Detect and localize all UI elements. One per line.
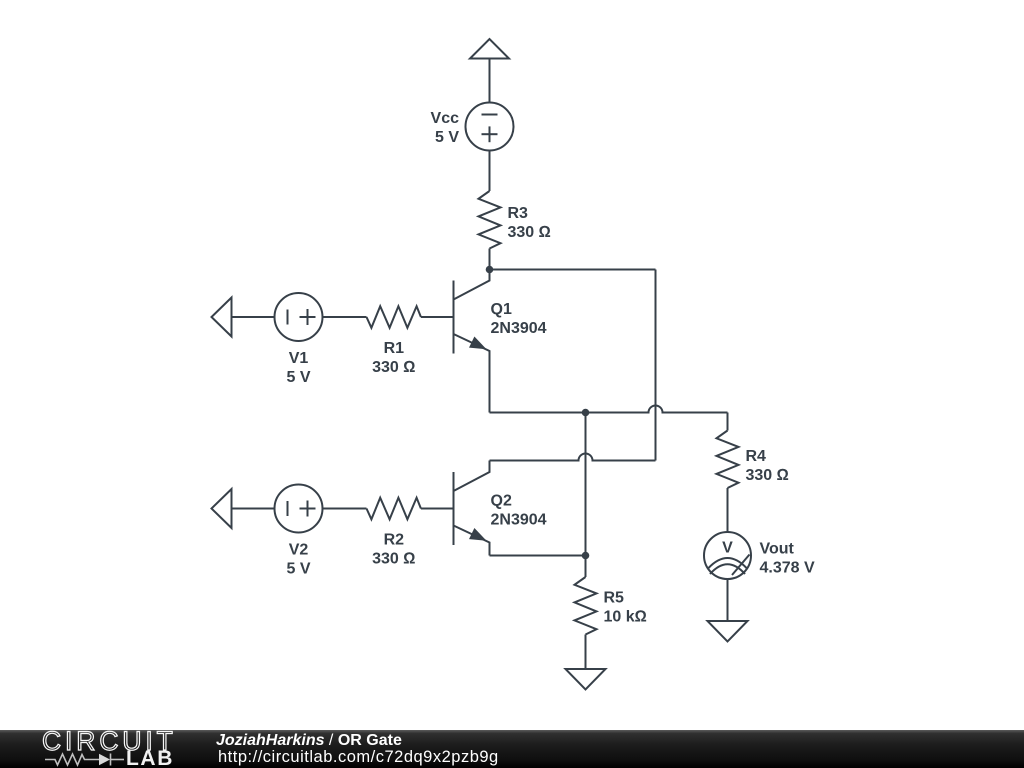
resistor R4	[717, 431, 739, 489]
label Q1 2N3904	[491, 301, 547, 337]
svg-text:Vcc: Vcc	[431, 110, 460, 127]
wire R2 to Q2 base	[421, 508, 453, 510]
svg-text:330 Ω: 330 Ω	[372, 551, 415, 568]
wire arrow to V2	[232, 508, 275, 510]
wire vertical mid	[585, 413, 587, 556]
resistor R1	[367, 306, 421, 328]
wire R1 to Q1 base	[421, 316, 453, 318]
svg-text:330 Ω: 330 Ω	[746, 467, 789, 484]
wire R3 to collector node	[489, 249, 491, 270]
wire rail to R4	[727, 413, 729, 431]
wire arrow to V1	[232, 316, 275, 318]
svg-text:330 Ω: 330 Ω	[372, 359, 415, 376]
svg-text:Vout: Vout	[760, 541, 795, 558]
svg-text:V2: V2	[289, 542, 309, 559]
voltage source V2 5 V	[275, 485, 323, 533]
voltage source V1 5 V	[275, 293, 323, 341]
label Q2 2N3904	[491, 493, 547, 529]
node Q2 emitter	[582, 552, 590, 560]
transistor Q1	[454, 270, 490, 413]
svg-text:2N3904: 2N3904	[491, 320, 547, 337]
wire Q2 collector rail with hop	[490, 454, 656, 461]
label Vcc 5 V	[431, 110, 460, 146]
wire Q2 emitter to node	[490, 555, 586, 557]
transistor Q2	[454, 461, 490, 556]
svg-text:5 V: 5 V	[286, 561, 310, 578]
node emitter rail	[582, 409, 590, 417]
svg-text:V1: V1	[289, 350, 309, 367]
svg-text:LAB: LAB	[126, 747, 174, 768]
wire Vcc flag to source V	[489, 59, 491, 104]
wire collector node to right	[490, 269, 656, 271]
svg-text:R1: R1	[384, 340, 405, 357]
wire V2 to R2	[323, 508, 367, 510]
svg-text:JoziahHarkins / OR Gate: JoziahHarkins / OR Gate	[216, 732, 402, 749]
svg-text:R2: R2	[384, 532, 405, 549]
label R4 330 ohm	[746, 448, 789, 484]
svg-text:R4: R4	[746, 448, 767, 465]
logo resistor-diode squiggle	[45, 754, 124, 766]
wire R4 to voltmeter	[727, 488, 729, 532]
input net arrow V2	[212, 489, 232, 528]
wire right vertical feedback	[655, 270, 657, 461]
svg-text:5 V: 5 V	[435, 129, 459, 146]
label V1 5 V	[286, 350, 310, 386]
svg-text:Q2: Q2	[491, 493, 512, 510]
wire Q1 emitter rail with hop	[490, 406, 728, 413]
resistor R5	[575, 577, 597, 635]
wire source to R3	[489, 151, 491, 192]
resistor R3	[479, 191, 501, 249]
label Vout 4.378 V	[760, 541, 815, 577]
voltage source Vcc 5 V	[466, 103, 514, 151]
svg-text:http://circuitlab.com/c72dq9x2: http://circuitlab.com/c72dq9x2pzb9g	[218, 748, 499, 766]
label R2 330 ohm	[372, 532, 415, 568]
svg-text:V: V	[722, 540, 733, 557]
svg-text:R5: R5	[604, 590, 625, 607]
svg-text:2N3904: 2N3904	[491, 512, 547, 529]
wire V1 to R1	[323, 316, 367, 318]
svg-text:Q1: Q1	[491, 301, 512, 318]
wire R5 to ground	[585, 635, 587, 670]
voltmeter Vout	[704, 532, 751, 579]
ground Vout	[708, 621, 748, 642]
svg-text:330 Ω: 330 Ω	[508, 224, 551, 241]
Vcc net flag arrow	[470, 39, 509, 59]
node collector Q1	[486, 266, 494, 274]
svg-text:4.378 V: 4.378 V	[760, 560, 815, 577]
label R3 330 ohm	[508, 205, 551, 241]
svg-text:10 kΩ: 10 kΩ	[604, 609, 647, 626]
svg-text:5 V: 5 V	[286, 369, 310, 386]
label V2 5 V	[286, 542, 310, 578]
label R1 330 ohm	[372, 340, 415, 376]
svg-text:R3: R3	[508, 205, 529, 222]
ground R5	[566, 669, 606, 690]
footer bar	[0, 730, 1024, 768]
wire node to R5	[585, 556, 587, 578]
wire voltmeter to ground	[727, 579, 729, 621]
input net arrow V1	[212, 298, 232, 337]
label R5 10 kohm	[604, 590, 647, 626]
resistor R2	[367, 498, 421, 520]
